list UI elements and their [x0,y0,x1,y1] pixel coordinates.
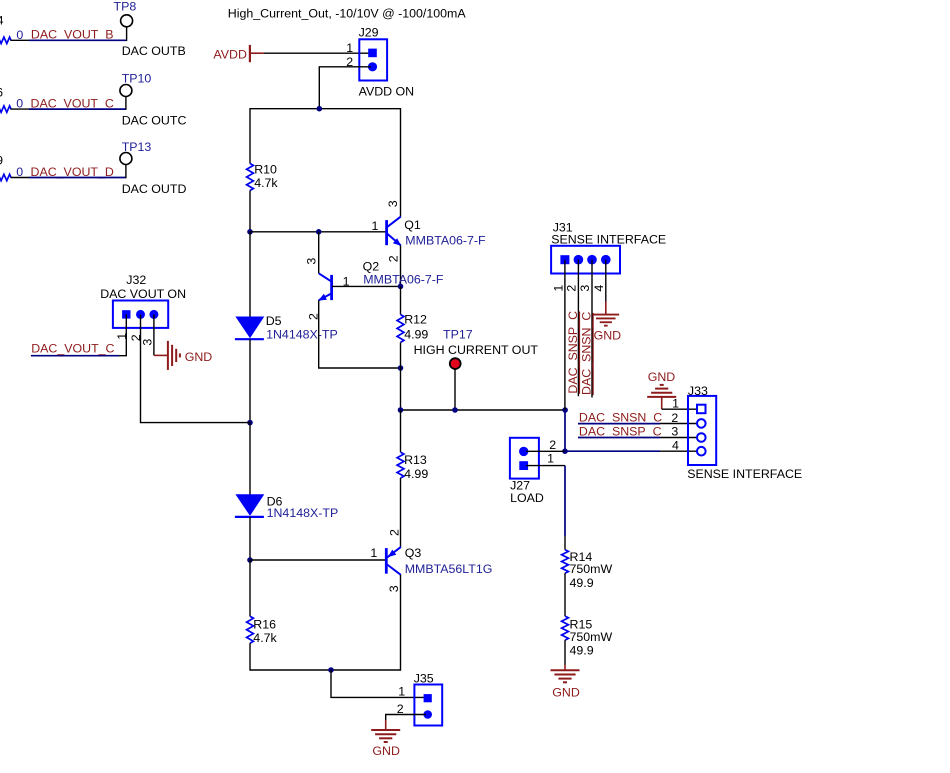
svg-text:4: 4 [672,439,679,453]
svg-text:GND: GND [372,744,400,758]
wire [249,643,251,671]
wire J32 pin1 [119,314,126,355]
svg-text:DAC_SNSN_C: DAC_SNSN_C [580,312,594,395]
svg-text:DAC OUTD: DAC OUTD [122,182,187,196]
value 49.9 [570,643,594,657]
wire (net underline) [29,39,127,41]
pin number 3 [671,425,678,439]
wire bottom rail [250,669,401,671]
svg-text:AVDD: AVDD [213,47,247,61]
label AVDD [213,47,247,61]
pin number 2 [397,702,404,716]
svg-text:49.9: 49.9 [570,643,594,657]
label SENSE INTERFACE [551,232,666,246]
test point TP13 [120,153,132,165]
svg-text:1: 1 [371,219,378,233]
svg-text:1: 1 [672,397,679,411]
label LOAD [510,491,544,505]
svg-text:9: 9 [0,153,3,167]
wire [249,191,251,232]
part MMBTA06-7-F [363,273,444,287]
label R15 [570,618,593,632]
wire [11,108,30,110]
svg-text:J32: J32 [126,273,146,287]
wire [126,27,128,41]
svg-text:J35: J35 [414,672,434,686]
wire Q3 base row [250,559,385,561]
pin number 3 [578,285,592,292]
svg-text:J33: J33 [688,384,708,398]
value 49.9 [570,576,594,590]
net label DAC_SNSN_C [579,411,662,425]
wire [564,536,566,550]
junction [247,557,253,563]
label DAC OUTD [122,182,187,196]
label AVDD ON [359,85,415,99]
svg-text:2: 2 [565,285,579,292]
svg-text:4.7k: 4.7k [254,176,278,190]
svg-text:3: 3 [387,585,401,592]
wire [400,410,402,452]
svg-text:4.99: 4.99 [404,327,428,341]
svg-text:DAC_VOUT_C: DAC_VOUT_C [31,342,114,356]
wire to J35 [331,670,424,697]
label GND [648,370,676,384]
label J35 [414,672,434,686]
junction [452,407,458,413]
junction [247,229,253,235]
wire [249,339,251,422]
svg-text:DAC OUTC: DAC OUTC [122,114,187,128]
svg-text:3: 3 [386,200,400,207]
net label DAC_SNSP_C [579,424,662,438]
svg-text:Q2: Q2 [363,259,380,273]
svg-text:R12: R12 [404,313,427,327]
value 4.99 [404,467,428,481]
pin number 1 [398,685,405,699]
net label DAC_VOUT_C [31,96,114,110]
connector J35 [414,685,442,726]
ground (J33 pin1, pointing up) [647,385,676,409]
pin number 2 [306,313,320,320]
connector J29 [359,39,387,80]
label R13 [404,453,427,467]
wire [11,39,30,41]
pin number 1 [551,285,565,292]
svg-text:4: 4 [0,14,4,28]
pin number 1 [343,274,350,288]
resistor fragment row D (0 ohm) [0,174,11,180]
label SENSE INTERFACE [687,467,802,481]
wire [400,478,402,547]
junction [398,407,404,413]
junction [316,229,322,235]
label DAC VOUT ON [100,287,186,301]
label J33 [688,384,708,398]
svg-text:MMBTA56LT1G: MMBTA56LT1G [405,562,493,576]
wire [400,245,402,286]
svg-text:6: 6 [0,85,3,99]
pin number 4 (clipped) [0,14,4,28]
resistor R12 [397,315,404,343]
wire Q2 collector [318,232,320,273]
wire J33 pin4 (navy) [565,450,660,452]
svg-text:MMBTA06-7-F: MMBTA06-7-F [363,273,444,287]
resistor R14 [562,550,569,574]
pin number 2 [129,334,143,341]
connector J31 [551,246,620,274]
svg-text:2: 2 [397,702,404,716]
part MMBTA56LT1G [405,562,493,576]
wire left rail mid [249,232,251,317]
label Q3 [405,546,422,560]
pin number 2 [565,285,579,292]
label HIGH CURRENT OUT [414,343,539,357]
svg-text:2: 2 [388,529,402,536]
label J27 [510,479,530,493]
svg-text:TP17: TP17 [443,327,473,341]
wire J31 pin4 [605,260,607,302]
label DAC OUTC [122,114,187,128]
wire (net underline) [578,437,660,439]
value 0 [16,97,23,111]
pin number 1 [371,219,378,233]
svg-text:TP8: TP8 [114,0,137,13]
diode D6 [235,494,264,517]
wire [249,560,251,616]
svg-text:High_Current_Out, -10/10V @ -1: High_Current_Out, -10/10V @ -100/100mA [228,6,467,20]
svg-text:TP13: TP13 [122,140,152,154]
wire J31 pin1 [564,260,566,410]
svg-text:R13: R13 [404,453,427,467]
label R14 [570,550,593,564]
part 1N4148X-TP [266,328,338,342]
junction [562,407,568,413]
wire J32 pin3 [153,314,155,355]
svg-text:4: 4 [592,285,606,292]
wire (net underline) [29,108,126,110]
pin number 9 (clipped) [0,153,3,167]
wire navy col [564,410,566,451]
svg-text:DAC_SNSN_C: DAC_SNSN_C [579,411,662,425]
resistor R10 [247,164,254,191]
pin number 2 [549,438,556,452]
pin number 1 [115,333,129,340]
pin number 3 [140,339,154,346]
label Q2 [363,259,380,273]
svg-text:R16: R16 [253,618,276,632]
label GND [185,350,213,364]
svg-text:750mW: 750mW [570,562,613,576]
wire [400,286,402,314]
connector J27 [510,438,539,479]
title [228,6,467,20]
wire (net underline) [29,177,126,179]
transistor Q2 [318,273,331,300]
wire (navy drop) [564,466,566,536]
svg-text:1: 1 [346,41,353,55]
svg-text:MMBTA06-7-F: MMBTA06-7-F [405,234,486,248]
pin number 1 [346,41,353,55]
svg-text:49.9: 49.9 [570,576,594,590]
pin number 1 [672,397,679,411]
wire J31 pin2 [577,260,579,397]
svg-text:SENSE INTERFACE: SENSE INTERFACE [551,232,666,246]
svg-text:Q1: Q1 [404,218,421,232]
wire [564,573,566,616]
ground (J32 pin3) [154,341,180,370]
svg-text:HIGH CURRENT OUT: HIGH CURRENT OUT [414,343,539,357]
label TP10 [122,72,152,86]
value 0 [16,28,23,42]
svg-text:D5: D5 [266,314,282,328]
wire [400,575,402,671]
pin number 2 [388,529,402,536]
wire J29 pin2 [319,67,371,109]
value 4.7k [253,631,277,645]
label GND [594,329,622,343]
wire Q2 emitter [319,300,401,368]
svg-text:1: 1 [398,685,405,699]
junction [328,667,334,673]
wire [564,640,566,665]
wire Q1 base row [250,231,385,233]
label R16 [253,618,276,632]
junction [398,365,404,371]
ground (R15) [551,665,580,683]
label D5 [266,314,282,328]
wire (net underline) [578,423,660,425]
value 0 [16,165,23,179]
ground (J35) [371,720,400,742]
wire [249,423,251,495]
wire J33 pin1 [662,408,697,410]
wire J32 pin2 [141,314,251,422]
label J29 [359,26,379,40]
svg-text:3: 3 [578,285,592,292]
diode D5 [235,317,264,340]
part MMBTA06-7-F [405,234,486,248]
label Q1 [404,218,421,232]
wire J27 pin2 [526,450,565,452]
resistor fragment row C (0 ohm) [0,106,11,112]
wire J33 pin3 [660,437,697,439]
transistor Q1 [387,217,402,246]
wire Q2 base [332,285,401,287]
svg-text:Q3: Q3 [405,546,422,560]
value 750mW [570,630,613,644]
resistor R15 [562,616,569,640]
pin number 4 [672,439,679,453]
junction [398,284,404,290]
svg-text:GND: GND [594,329,622,343]
svg-text:2: 2 [671,411,678,425]
pin number 4 [592,285,606,292]
wire J35 pin2 [386,715,426,722]
ground (J31 pin4) [592,301,619,325]
junction [562,448,568,454]
junction [317,106,323,112]
wire right col upper [400,108,402,217]
wire top rail [250,108,401,110]
net label DAC_VOUT_B [31,28,114,42]
svg-text:J29: J29 [359,26,379,40]
svg-text:4.99: 4.99 [404,467,428,481]
wire J31 pin3 [591,260,593,398]
wire [264,52,371,54]
pin number 2 [387,255,401,262]
label D6 [267,495,283,509]
svg-text:1: 1 [547,451,554,465]
pin number 3 [304,258,318,265]
wire [400,342,402,410]
svg-text:4.7k: 4.7k [253,631,277,645]
value 4.99 [404,327,428,341]
svg-text:DAC VOUT ON: DAC VOUT ON [100,287,186,301]
svg-text:R10: R10 [254,163,277,177]
resistor fragment row B (0 ohm) [0,37,11,43]
wire output row [401,409,566,411]
resistor R16 [247,616,254,643]
svg-text:AVDD ON: AVDD ON [359,85,415,99]
wire [249,517,251,560]
value 4.7k [254,176,278,190]
pin number 2 [346,55,353,69]
label J31 [553,220,573,234]
power port AVDD [250,45,264,62]
pin number 1 [547,451,554,465]
svg-text:TP10: TP10 [122,72,152,86]
label J32 [126,273,146,287]
junction [247,420,253,426]
svg-text:2: 2 [549,438,556,452]
pin number 2 [671,411,678,425]
test point TP8 [121,15,133,27]
label TP13 [122,140,152,154]
svg-text:1: 1 [370,546,377,560]
svg-text:750mW: 750mW [570,630,613,644]
label TP8 [114,0,137,13]
wire [125,96,127,110]
resistor R13 [397,452,404,478]
svg-text:2: 2 [387,255,401,262]
connector J33 [688,396,716,465]
label R10 [254,163,277,177]
pin number 3 [387,585,401,592]
svg-text:DAC_SNSP_C: DAC_SNSP_C [566,311,580,394]
net label DAC_VOUT_C [31,342,114,356]
part 1N4148X-TP [267,506,339,520]
wire left rail upper [249,108,251,164]
net label DAC_SNSN_C (rotated) [580,312,594,396]
svg-text:3: 3 [140,339,154,346]
pin number 3 [386,200,400,207]
svg-text:1N4148X-TP: 1N4148X-TP [266,328,338,342]
label R12 [404,313,427,327]
svg-text:GND: GND [185,350,213,364]
svg-text:GND: GND [648,370,676,384]
svg-text:LOAD: LOAD [510,491,544,505]
label GND [552,685,580,699]
pin number 6 (clipped) [0,85,3,99]
test point TP17 [450,358,461,410]
test point TP10 [120,85,132,97]
wire (net underline) [31,355,119,357]
connector J32 [113,301,168,328]
svg-text:GND: GND [552,685,580,699]
svg-text:SENSE INTERFACE: SENSE INTERFACE [687,467,802,481]
wire J33 pin4 [660,450,697,452]
svg-text:1: 1 [551,285,565,292]
wire [11,177,30,179]
net label DAC_VOUT_D [31,165,114,179]
wire J27 pin1 [526,465,565,467]
value 750mW [570,562,613,576]
wire J33 pin2 [660,423,697,425]
svg-text:DAC_SNSP_C: DAC_SNSP_C [579,424,662,438]
net label DAC_SNSP_C (rotated) [566,311,580,394]
svg-text:1N4148X-TP: 1N4148X-TP [267,506,339,520]
svg-text:3: 3 [671,425,678,439]
pin number 1 [370,546,377,560]
transistor Q3 [386,547,401,575]
svg-text:DAC OUTB: DAC OUTB [122,44,186,58]
wire [125,164,127,178]
svg-text:3: 3 [304,258,318,265]
label TP17 [443,327,473,341]
label DAC OUTB [122,44,186,58]
label GND [372,744,400,758]
